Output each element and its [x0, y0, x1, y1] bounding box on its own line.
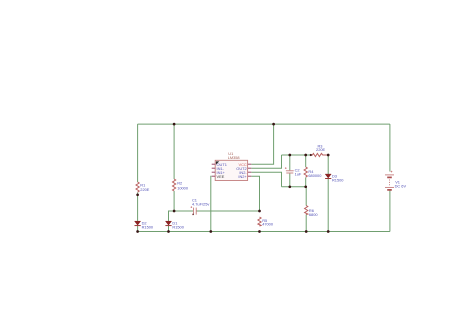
op-amp left pin stubs	[212, 164, 216, 176]
node bottom rail R5	[258, 230, 261, 233]
wire VCC pin to top rail	[251, 124, 273, 164]
wire R3 right end down to D3	[327, 155, 329, 174]
capacitor C1	[190, 206, 196, 215]
op-amp orientation mark	[216, 161, 219, 164]
wire C2 bottom lead	[289, 174, 291, 187]
svg-text:LM358: LM358	[228, 155, 240, 160]
label R2 value	[177, 181, 189, 191]
label R6 value	[309, 208, 318, 217]
label C2 value	[295, 167, 302, 176]
wire IN2+ pin down to R5 junction	[251, 176, 259, 211]
wire bottom rail	[138, 231, 390, 233]
resistor R6	[305, 206, 308, 215]
wire R6 leads	[305, 187, 308, 206]
node R3 left lead junction	[310, 154, 312, 156]
svg-text:220E: 220E	[140, 187, 149, 192]
diode D2	[135, 221, 141, 225]
wire junction to D1	[169, 211, 175, 221]
resistor R4	[304, 167, 307, 177]
svg-text:VEE: VEE	[217, 174, 225, 179]
svg-text:R1500: R1500	[172, 224, 184, 229]
resistor R3 (horizontal)	[311, 153, 329, 156]
node IN2+/C1/R5 junction	[258, 210, 261, 213]
wire D2 to bottom rail	[137, 226, 139, 232]
node bottom rail D3	[327, 230, 330, 233]
label R5 value	[262, 218, 274, 227]
wire top rail	[138, 123, 390, 125]
op-amp right pin stubs	[248, 164, 251, 176]
svg-text:4.7uF/25v: 4.7uF/25v	[192, 202, 209, 207]
wire C2 top lead	[289, 155, 291, 170]
svg-text:6800: 6800	[309, 212, 318, 217]
node bottom rail D2	[136, 230, 139, 233]
wire right column (battery branch)	[389, 124, 391, 171]
svg-text:47000: 47000	[262, 222, 274, 227]
label R4 value	[308, 169, 322, 178]
wire VEE pin down to bottom rail	[210, 176, 213, 231]
node bottom rail VEE	[209, 230, 212, 233]
svg-text:680000: 680000	[308, 173, 322, 178]
battery V1	[385, 171, 394, 190]
node R3/D3 junction	[327, 154, 330, 157]
capacitor C2	[285, 167, 294, 173]
label D3 value	[332, 173, 344, 182]
svg-text:220E: 220E	[316, 147, 325, 152]
wire OUT2 pin to feedback rail	[251, 155, 281, 168]
wire junction to C1 left	[174, 210, 193, 212]
node below R1	[136, 193, 139, 196]
label U1 designator	[228, 151, 240, 160]
op-amp pin names left	[217, 162, 227, 175]
wire D1 to bottom rail	[168, 226, 170, 232]
node C2 bottom junction	[288, 185, 291, 188]
svg-text:DC 6V: DC 6V	[395, 183, 407, 188]
svg-text:IN2+: IN2+	[238, 174, 247, 179]
wire R4 bottom lead	[305, 178, 307, 187]
wire feedback top rail y155	[282, 154, 311, 156]
wire IN2- pin to lower feedback rail	[251, 172, 281, 187]
wire R2 bottom to junction	[173, 191, 175, 211]
label R3 value	[316, 143, 325, 152]
node top rail VCC junction	[272, 123, 275, 126]
wire C1 right to R5 junction	[197, 210, 260, 212]
label V1 value	[395, 180, 407, 189]
node R2/D1/C1 junction	[173, 210, 176, 213]
svg-text:10000: 10000	[177, 186, 189, 191]
wire D3 to bottom rail	[327, 179, 329, 232]
diode D1	[165, 221, 171, 225]
label R1 value	[140, 183, 149, 192]
wire left column (R1/D2 branch)	[137, 124, 139, 182]
node bottom rail R6	[305, 230, 308, 233]
wire R1 to D2	[137, 193, 139, 222]
diode D3	[325, 174, 331, 178]
node R4/R6 junction	[304, 185, 307, 188]
svg-text:R1500: R1500	[332, 177, 344, 182]
resistor R1	[136, 182, 139, 192]
op-amp U1 box	[215, 160, 247, 180]
svg-text:1uF: 1uF	[295, 171, 302, 176]
wire feedback bottom rail y187	[282, 186, 306, 188]
resistor R2	[173, 179, 176, 191]
label D2 value	[142, 220, 154, 229]
wire R2 column top	[173, 124, 175, 179]
node C2 top junction	[288, 154, 291, 157]
op-amp pin names right	[236, 166, 247, 179]
svg-text:R1500: R1500	[142, 224, 154, 229]
node bottom rail D1	[167, 230, 170, 233]
label D1 value	[172, 220, 184, 229]
node R4 top junction	[304, 154, 307, 157]
wire battery bottom to rail	[389, 191, 391, 232]
wire R4 top lead	[305, 155, 307, 167]
label C1 value	[192, 198, 209, 207]
node top rail R2 junction	[173, 123, 176, 126]
resistor R5	[258, 217, 261, 226]
